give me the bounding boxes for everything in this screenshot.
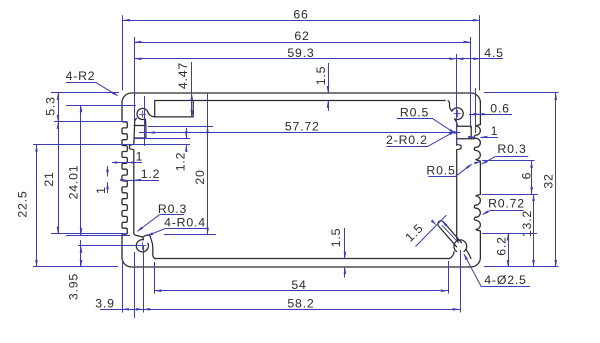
svg-text:32: 32 [542, 173, 556, 188]
dim 32 line [555, 93, 557, 267]
svg-text:1: 1 [136, 150, 143, 164]
bottom-right slot centerline [442, 225, 459, 243]
dim 58.2 ext right [460, 250, 462, 313]
svg-text:4-R2: 4-R2 [66, 69, 96, 83]
bottom-left screw boss [136, 237, 148, 252]
svg-text:1.5: 1.5 [329, 228, 343, 248]
dim 13.2 line [533, 194, 535, 267]
right inner wall [457, 139, 461, 241]
svg-text:21: 21 [42, 171, 56, 186]
dim 4.47 line [191, 62, 193, 117]
dim 6 line [531, 161, 533, 194]
dim 4.5 ext right [475, 88, 477, 133]
ext line below left wall [134, 252, 136, 318]
svg-text:6.2: 6.2 [495, 236, 509, 256]
bottom-right boss fillets [448, 252, 454, 259]
svg-text:R0.3: R0.3 [497, 142, 526, 156]
dim 32 ext bot [484, 266, 559, 268]
dim 22.5 line [36, 145, 38, 267]
svg-text:R0.72: R0.72 [488, 197, 525, 211]
svg-text:54: 54 [291, 278, 306, 292]
dim 1.2 rot line [186, 128, 188, 138]
dim 20 ext top [148, 126, 213, 128]
svg-text:2-R0.2: 2-R0.2 [386, 133, 428, 147]
dim 20 line [207, 93, 209, 235]
dim 24.01 ext top [66, 105, 136, 107]
dim 32 ext top [484, 92, 559, 94]
dim 6 ext bot [482, 194, 538, 196]
svg-text:57.72: 57.72 [285, 120, 320, 134]
dim 62 ext right [470, 37, 472, 128]
dim 1.5 diag line [416, 215, 447, 246]
top-left channel shelf bottom [134, 137, 146, 139]
bottom-right keyhole slot [438, 221, 462, 247]
left inner wall [130, 126, 135, 233]
dim 24.01 ext bot [66, 235, 130, 237]
dim 0.6 line [469, 114, 512, 116]
dim 58.2 and 3.9 line [100, 309, 460, 311]
dim 1.2 left line [122, 180, 159, 182]
dim 1 left rot [107, 166, 109, 177]
dim 5.3 ext top [51, 92, 119, 94]
dim 54 line [154, 290, 448, 292]
svg-text:R0.3: R0.3 [158, 202, 187, 216]
dim 66 ext left [122, 15, 124, 90]
dim 3.95 line [80, 240, 82, 267]
svg-text:20: 20 [193, 169, 207, 184]
svg-text:4.5: 4.5 [484, 46, 504, 60]
top-left boss face curve [135, 118, 137, 125]
dim 54 ext left [154, 262, 156, 294]
svg-text:24.01: 24.01 [67, 165, 81, 200]
svg-text:5.3: 5.3 [44, 96, 58, 116]
svg-text:4-Ø2.5: 4-Ø2.5 [484, 273, 526, 287]
dim 20 ext bottom [164, 234, 216, 236]
dim 3.9 ext left [122, 260, 124, 313]
svg-text:1.2: 1.2 [174, 152, 188, 172]
top-right ceiling step [448, 101, 463, 126]
dim 62 ext left [134, 37, 136, 122]
svg-text:1.5: 1.5 [314, 66, 328, 86]
bottom-left boss center mark [138, 245, 146, 247]
svg-text:3.95: 3.95 [67, 273, 81, 300]
svg-text:22.5: 22.5 [16, 190, 30, 217]
dim 3.9 ext right [143, 246, 145, 313]
dim 1.2 rot ext top [135, 138, 190, 140]
top-left screw boss [137, 108, 155, 138]
dim 4.5 line [457, 58, 504, 60]
dim 22.5 ext bot [33, 266, 118, 268]
dim 1 left line [112, 162, 142, 164]
svg-text:59.3: 59.3 [287, 46, 314, 60]
bottom-right screw boss circle [454, 240, 467, 252]
svg-text:13.2: 13.2 [520, 210, 534, 237]
dim 59.3 line [134, 58, 456, 60]
dim 6.2 ext [482, 233, 537, 235]
outer profile shell [122, 93, 480, 267]
dim 22.5 ext top [33, 144, 135, 146]
dim 3.95 ext [78, 245, 139, 247]
dim 1 right line [469, 137, 475, 139]
dim 66 ext right [479, 15, 481, 90]
svg-text:1.2: 1.2 [141, 167, 161, 181]
dim 5.3 ext [54, 121, 127, 123]
dim 59.3 ext right [456, 54, 458, 146]
svg-text:1: 1 [491, 124, 498, 138]
inner top wall line [155, 100, 446, 102]
dim 6.2 line [508, 233, 510, 267]
inner bottom wall line [155, 258, 448, 260]
dim 54 ext right [448, 261, 450, 294]
top-left channel shelf top [134, 125, 146, 127]
top-right screw channel box [457, 126, 472, 139]
top-right boss center mark [454, 113, 461, 115]
top-left hanging rib [155, 101, 194, 117]
dim 6 ext top [482, 160, 535, 162]
dim 1.5 top line [328, 63, 330, 93]
svg-text:66: 66 [293, 7, 308, 21]
dim 66 line [123, 20, 480, 22]
dim 24.01 line [80, 105, 82, 235]
dim 57.72 line [139, 132, 461, 134]
svg-text:62: 62 [294, 29, 309, 43]
dim 21 line [58, 122, 60, 234]
svg-text:0.6: 0.6 [490, 101, 510, 115]
dim 1.5 bottom line [344, 228, 346, 259]
dim 21 ext [51, 233, 127, 235]
dim 62 line [134, 42, 470, 44]
ext line through left boss [144, 96, 146, 146]
svg-text:R0.5: R0.5 [426, 164, 455, 178]
svg-text:1: 1 [94, 187, 108, 194]
svg-text:4-R0.4: 4-R0.4 [164, 215, 206, 229]
svg-text:4.47: 4.47 [176, 62, 190, 89]
svg-text:58.2: 58.2 [287, 296, 314, 310]
bottom-left boss lips [134, 233, 156, 259]
svg-text:3.9: 3.9 [95, 296, 115, 310]
svg-text:R0.5: R0.5 [400, 106, 429, 120]
dim 1.2 rot ext bot [135, 144, 190, 146]
dim 5.3 line [58, 93, 60, 122]
svg-text:6: 6 [520, 172, 534, 179]
top-right channel bottom [457, 138, 475, 140]
top-left boss center mark [139, 114, 146, 116]
